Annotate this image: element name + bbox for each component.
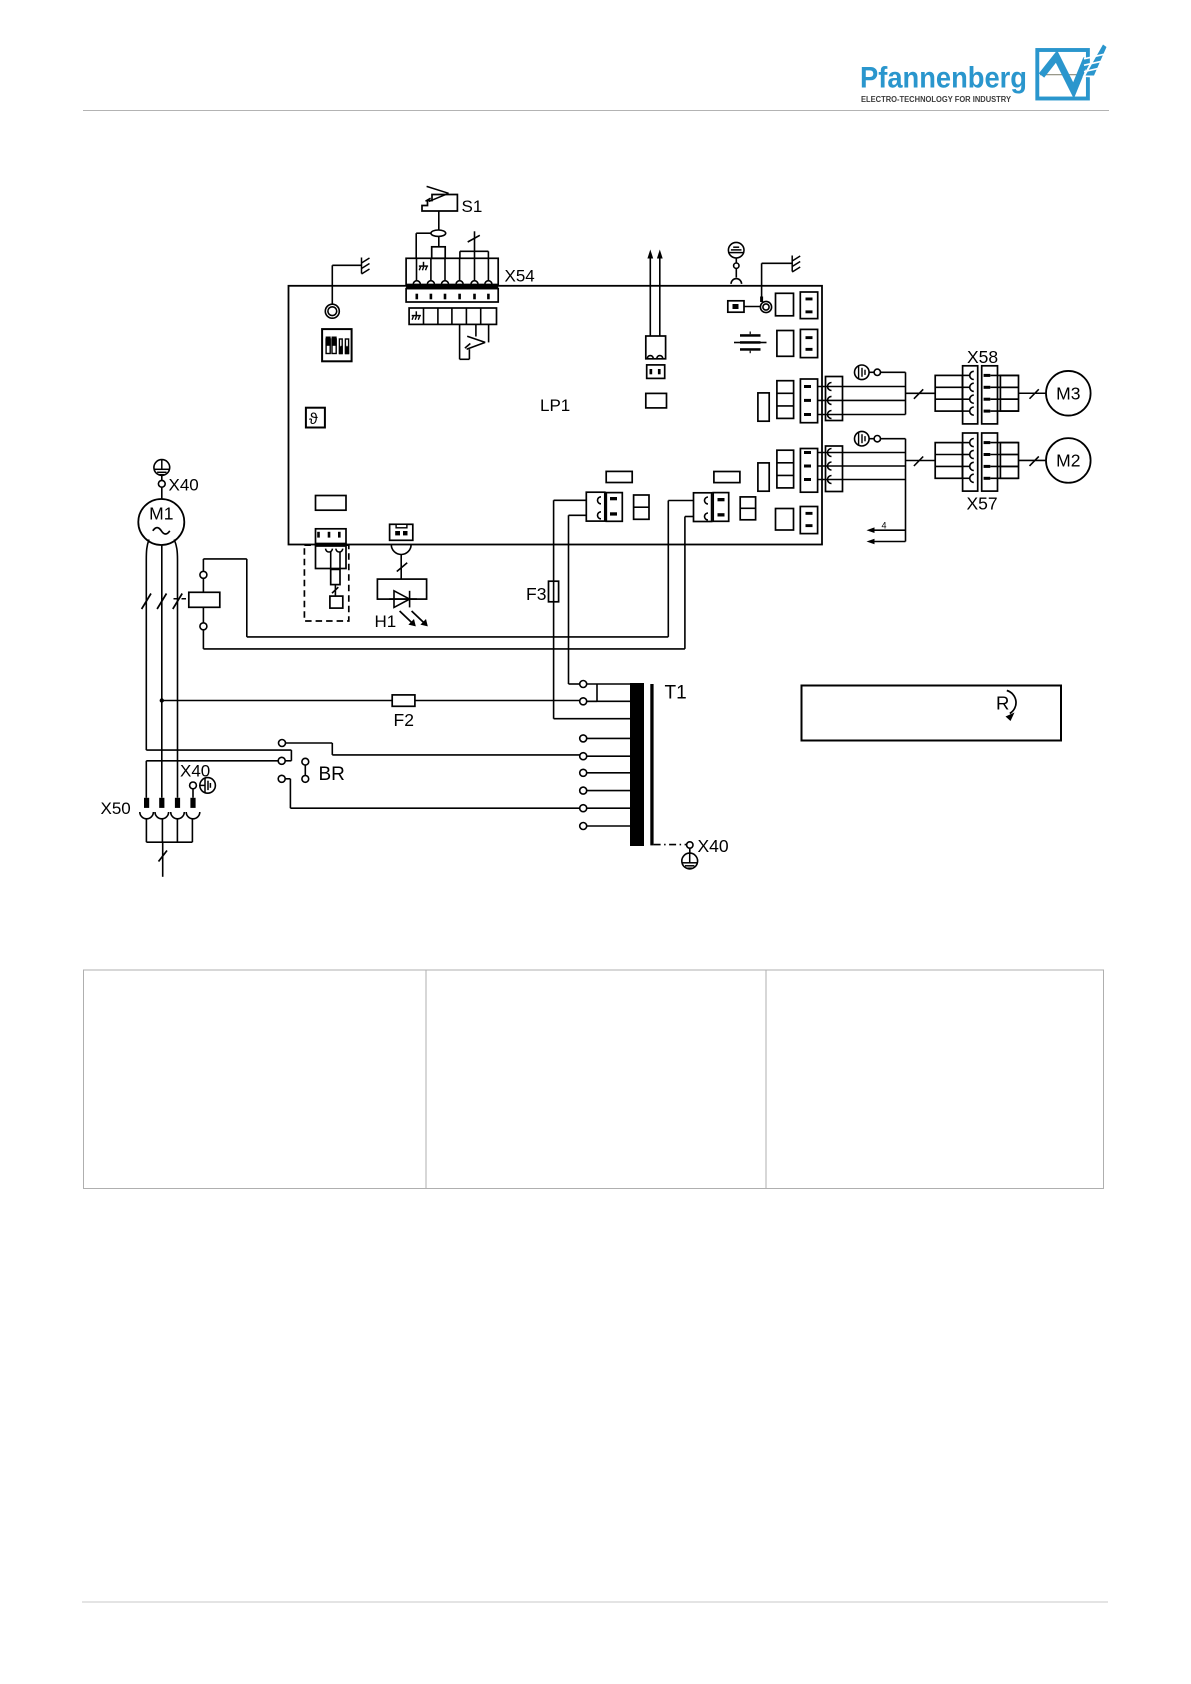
svg-text:X40: X40	[698, 836, 729, 856]
svg-text:LP1: LP1	[540, 396, 570, 415]
svg-text:X40: X40	[180, 762, 210, 781]
svg-text:F2: F2	[394, 710, 414, 730]
svg-text:Pfannenberg: Pfannenberg	[860, 62, 1027, 95]
svg-text:H1: H1	[375, 612, 397, 631]
svg-text:X57: X57	[967, 494, 998, 514]
svg-text:R: R	[996, 693, 1009, 714]
svg-text:4: 4	[882, 521, 887, 531]
svg-text:F3: F3	[526, 584, 546, 604]
svg-text:X54: X54	[505, 267, 535, 286]
svg-text:M3: M3	[1056, 383, 1080, 403]
svg-text:T1: T1	[665, 683, 687, 704]
svg-text:S1: S1	[462, 197, 483, 216]
svg-text:BR: BR	[319, 764, 345, 785]
svg-text:X40: X40	[169, 476, 199, 495]
svg-text:M1: M1	[149, 504, 173, 524]
svg-text:ELECTRO-TECHNOLOGY FOR INDUSTR: ELECTRO-TECHNOLOGY FOR INDUSTRY	[861, 94, 1011, 104]
svg-text:X58: X58	[967, 347, 998, 367]
svg-text:X50: X50	[101, 799, 131, 818]
svg-text:M2: M2	[1056, 451, 1080, 471]
svg-text:ϑ: ϑ	[309, 411, 318, 428]
